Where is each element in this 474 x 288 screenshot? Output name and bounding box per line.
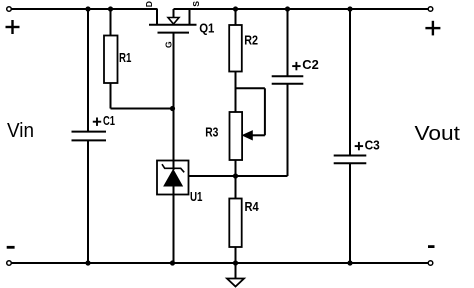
svg-text:C3: C3 <box>365 137 380 152</box>
svg-text:G: G <box>163 41 173 48</box>
svg-text:D: D <box>144 1 154 7</box>
svg-text:R2: R2 <box>244 32 258 47</box>
svg-text:R3: R3 <box>205 124 218 139</box>
svg-text:Vout: Vout <box>415 123 461 145</box>
svg-text:Q1: Q1 <box>199 21 214 36</box>
svg-text:R4: R4 <box>245 199 260 214</box>
svg-text:R1: R1 <box>119 50 131 65</box>
svg-text:C2: C2 <box>302 57 319 72</box>
svg-text:Vin: Vin <box>7 120 34 142</box>
svg-text:S: S <box>191 1 201 7</box>
svg-text:U1: U1 <box>190 189 203 204</box>
svg-text:C1: C1 <box>103 113 115 128</box>
